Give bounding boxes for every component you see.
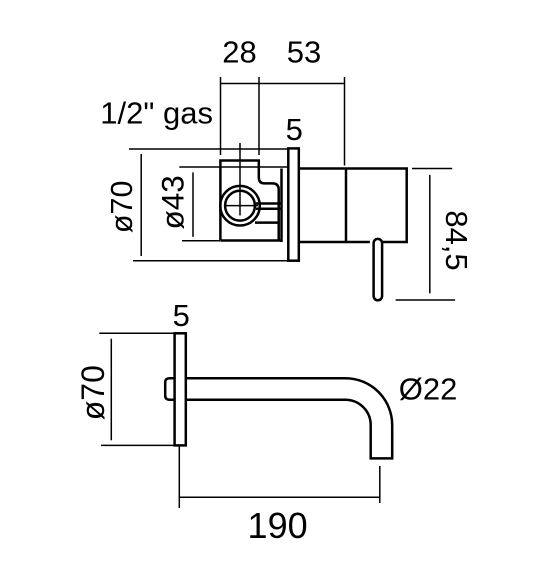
- extension line 190 left: [178, 446, 180, 509]
- centerline cartridge: [239, 143, 241, 216]
- body divider: [345, 169, 348, 243]
- svg-text:1/2" gas: 1/2" gas: [100, 96, 213, 131]
- label 1/2" gas: [100, 96, 213, 131]
- label 5 top: [286, 112, 303, 147]
- extension line 84,5 bottom: [396, 299, 456, 301]
- svg-text:84,5: 84,5: [439, 210, 474, 270]
- dimension line dia43: [192, 172, 194, 236]
- label dia43: [154, 175, 190, 229]
- cartridge inner circle: [225, 191, 255, 221]
- extension line 190 right: [379, 466, 381, 503]
- label 28: [222, 35, 256, 70]
- label dia70 bottom: [75, 365, 111, 420]
- wall plate top: [288, 148, 299, 260]
- extension line dia70b top: [99, 332, 174, 334]
- extension line dia70 bottom: [133, 260, 288, 262]
- cartridge outer circle: [220, 186, 260, 226]
- extension line 84,5 top: [412, 168, 452, 170]
- extension line dia70b bottom: [101, 444, 174, 446]
- lower flange line: [255, 221, 279, 224]
- crosshair horizontal: [225, 205, 259, 207]
- label dia70 top: [105, 181, 139, 234]
- extension line 28 left: [220, 77, 222, 155]
- extension line dia43 bottom: [182, 240, 220, 242]
- label 53: [287, 35, 321, 70]
- label dia22: [399, 371, 458, 406]
- dimension line 28/53: [221, 83, 345, 85]
- svg-text:53: 53: [287, 35, 321, 70]
- supply nub: [165, 378, 175, 400]
- extension line dia70 top: [129, 148, 288, 150]
- svg-text:28: 28: [222, 35, 256, 70]
- svg-text:ø70: ø70: [75, 365, 111, 420]
- extension line 28/53 middle: [258, 77, 260, 155]
- outlet pipe bottom: [256, 207, 282, 210]
- label 5 bottom: [173, 298, 190, 333]
- svg-text:5: 5: [286, 112, 303, 147]
- outlet pipe top: [256, 202, 282, 205]
- handle stem: [374, 239, 383, 300]
- dimension line 84,5: [429, 175, 431, 293]
- svg-text:190: 190: [248, 505, 308, 546]
- extension line 53 right: [344, 77, 346, 166]
- svg-text:ø70: ø70: [105, 181, 139, 234]
- dimension line dia70b: [110, 339, 112, 441]
- label 190: [248, 505, 308, 546]
- wall plate bottom drawing: [175, 333, 186, 445]
- dimension line 190: [179, 496, 379, 498]
- dimension line dia70: [140, 154, 142, 256]
- spout outline: [186, 378, 392, 458]
- cartridge wall face: [280, 169, 283, 243]
- label 84,5: [439, 210, 474, 270]
- svg-text:Ø22: Ø22: [399, 371, 458, 406]
- svg-text:5: 5: [173, 298, 190, 333]
- cartridge body outline: [220, 161, 281, 241]
- extension line dia43 top: [179, 166, 288, 168]
- body behind wall: [299, 169, 407, 243]
- svg-text:ø43: ø43: [154, 175, 190, 229]
